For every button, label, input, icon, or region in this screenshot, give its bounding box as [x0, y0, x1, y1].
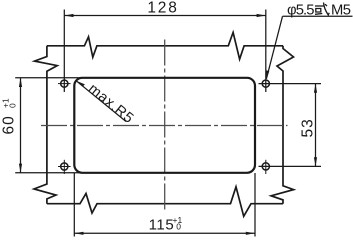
dim 115 extension line left: [73, 173, 75, 237]
svg-text:0: 0: [8, 103, 18, 108]
dim 60 arrow top: [19, 78, 22, 87]
svg-text:60: 60: [1, 115, 18, 134]
dim 128 arrow left: [64, 14, 73, 17]
dim 53 extension line bottom (through BR hole): [259, 165, 322, 167]
dim 53 dimension line: [315, 84, 317, 167]
dim 60 arrow bottom: [19, 164, 22, 173]
dim 60 dimension line: [20, 78, 22, 173]
vertical centerline: [164, 40, 166, 212]
leader max.R5 arrow at corner: [76, 81, 85, 87]
label Chinese char HUO (drawn strokes): [315, 3, 329, 16]
hole BL centermark horizontal: [58, 166, 71, 168]
leader max.R5: diagonal line: [76, 81, 126, 122]
dim 128 arrow right: [257, 14, 266, 17]
svg-text:M5: M5: [331, 2, 351, 18]
hole BL: [61, 163, 68, 170]
dim 115 arrow right: [246, 232, 255, 235]
leader phi5.5 or M5: diagonal line: [266, 16, 282, 79]
dim 53 arrow top: [314, 84, 317, 93]
svg-text:φ5.5: φ5.5: [287, 2, 314, 18]
dim 128 extension line left (through TL hole): [63, 10, 65, 93]
dim 128 extension line right (through TR hole): [265, 10, 267, 93]
leader phi5.5 or M5: underline: [283, 15, 353, 17]
panel outline with break zigzags: [34, 32, 294, 216]
leader arrow at TR hole: [266, 70, 269, 79]
svg-text:115: 115: [149, 217, 175, 234]
svg-text:0: 0: [176, 222, 181, 232]
dim 115 dimension line: [74, 232, 255, 234]
hole TL centermark horizontal: [58, 83, 71, 85]
hole BR centermark vertical: [265, 160, 267, 174]
hole BR: [262, 163, 269, 170]
dim 53 extension line top (through TR hole): [259, 83, 322, 85]
hole BL centermark vertical: [63, 160, 65, 174]
dim 128 dimension line: [64, 15, 265, 17]
dim 115 arrow left: [74, 232, 83, 235]
horizontal centerline: [41, 125, 288, 127]
cutout rounded rectangle: [74, 78, 255, 173]
dim 115 extension line right: [254, 173, 256, 237]
dim 60 extension line bottom: [15, 172, 83, 174]
hole TL: [61, 80, 68, 87]
svg-text:128: 128: [147, 0, 178, 16]
dim 53 arrow bottom: [314, 157, 317, 166]
hole TR: [262, 80, 269, 87]
svg-text:53: 53: [300, 118, 317, 137]
dim 60 extension line top (merges into cutout top edge): [15, 77, 83, 79]
